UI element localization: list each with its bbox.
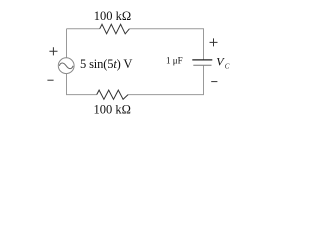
svg-text:C: C (225, 63, 230, 71)
svg-text:100 kΩ: 100 kΩ (94, 102, 131, 116)
svg-text:100 kΩ: 100 kΩ (94, 9, 131, 23)
svg-text:5 sin(5t) V: 5 sin(5t) V (80, 57, 132, 71)
svg-text:1 μF: 1 μF (166, 55, 183, 65)
